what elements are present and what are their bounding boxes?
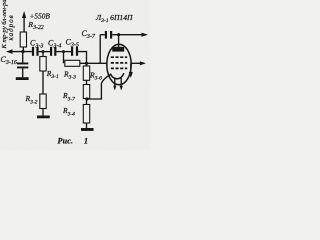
wire bus between C3-3 and C3-4 <box>39 51 50 53</box>
resistor R3-2 <box>40 94 46 109</box>
node grid junction dot <box>85 62 88 65</box>
node R3-3 junction dot <box>62 50 65 53</box>
ground R3-4 <box>81 128 94 131</box>
wire R3-22 bottom stub <box>22 47 24 52</box>
heater pin right <box>120 77 123 90</box>
resistor R3-22 <box>20 32 26 47</box>
node cathode junction dot <box>85 97 88 100</box>
wire grid line to tube <box>80 62 108 64</box>
wire R3-2 bottom stub <box>42 109 44 116</box>
resistor R3-4 <box>83 105 89 124</box>
wire between R3-6 and R3-7 <box>86 80 88 84</box>
wire between R3-1 and R3-2 <box>42 71 44 94</box>
wire bus between C3-4 and C3-5 <box>56 51 71 53</box>
node C3-16 junction dot <box>21 50 24 53</box>
resistor R3-7 <box>83 85 89 99</box>
svg-text:кадров: кадров <box>7 14 15 40</box>
capacitor C3-5 <box>71 47 78 56</box>
capacitor C3-7 <box>105 31 112 39</box>
tube U Л3-1 envelope <box>107 44 131 85</box>
label К тр-ру бл-ген-ра кадров (rotated) <box>1 0 15 50</box>
node anode junction dot <box>117 33 120 36</box>
wire screen lead right with arrow <box>131 62 143 64</box>
node R3-1 junction dot <box>42 50 45 53</box>
wire grid node to R3-6 <box>86 63 88 66</box>
svg-text:Рис.: Рис. <box>58 137 74 146</box>
wire bus after C3-5 with corner down <box>78 52 86 66</box>
svg-text:1: 1 <box>84 137 88 146</box>
paper background <box>0 0 150 150</box>
node +550V junction dot <box>21 50 24 53</box>
wire R3-1 top stub <box>42 52 44 57</box>
anode plate of tube <box>112 47 124 52</box>
ground C3-16 <box>16 77 29 80</box>
resistor R3-6 <box>83 66 89 80</box>
node suppressor arrow down <box>129 72 133 78</box>
node +550V arrow up <box>22 11 26 18</box>
wire C3-7 left drop to grid <box>99 35 101 64</box>
cathode of tube <box>110 73 124 79</box>
heater pin left <box>113 77 116 90</box>
wire C3-7 to output arrow <box>112 34 144 36</box>
wire +550V lead <box>23 17 25 32</box>
capacitor C3-3 <box>32 47 39 56</box>
capacitor C3-4 <box>50 47 56 56</box>
resistor R3-1 <box>40 57 46 72</box>
node screen arrow right <box>140 61 146 65</box>
grid g3 dashes <box>111 56 127 58</box>
wire between R3-7 and R3-4 <box>86 99 88 105</box>
wire anode top line <box>100 34 105 36</box>
wire R3-3 stub down <box>63 52 65 64</box>
capacitor C3-16 <box>17 52 28 78</box>
wire R3-4 bottom stub <box>86 123 88 128</box>
wire cathode lead to R3-4 node <box>87 75 111 99</box>
grid g1 dashes <box>111 67 127 69</box>
wire suppressor drop <box>130 63 132 73</box>
node output arrow right top <box>142 33 149 37</box>
resistor R3-3 <box>65 60 80 66</box>
wire anode lead <box>118 35 120 47</box>
grid g2 dashes <box>111 62 127 64</box>
ground R3-2 <box>37 116 50 119</box>
node arrow to frame blocking generator <box>6 49 13 54</box>
wire main bus left segment <box>9 51 32 53</box>
